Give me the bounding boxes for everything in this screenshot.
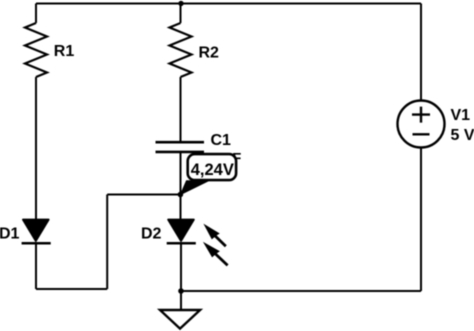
wire R2 top lead: [180, 4, 182, 24]
svg-text:4,24V: 4,24V: [191, 161, 234, 179]
svg-text:D1: D1: [0, 225, 20, 242]
svg-text:R1: R1: [54, 43, 75, 60]
node junction C1/D2: [178, 192, 184, 198]
light arrow 1 of photodiode D2: [203, 224, 225, 247]
node top junction at R2: [178, 1, 183, 6]
photodiode D2: [167, 220, 196, 244]
voltage source V1: [398, 101, 445, 148]
wire D2 cathode to ground node: [180, 243, 182, 291]
wire R2 bottom lead to C1: [180, 77, 182, 142]
resistor R1: [25, 23, 47, 77]
wire top rail from R1 to V1: [36, 3, 421, 5]
wire left branch bottom to D1: [36, 288, 107, 290]
diode D1: [22, 220, 51, 244]
svg-text:V1: V1: [451, 107, 471, 124]
wire left branch vertical: [106, 195, 108, 290]
wire R1 top lead: [35, 4, 37, 24]
wire junction to left branch: [107, 194, 180, 196]
wire V1 bottom lead: [420, 148, 422, 292]
ground: [160, 310, 200, 329]
wire V1 top lead: [420, 4, 422, 101]
resistor R2: [170, 23, 192, 77]
wire ground lead: [180, 291, 182, 310]
callout balloon 4,24V pointing at node between C1 and D2: [181, 154, 237, 195]
svg-text:C1: C1: [211, 132, 232, 149]
svg-text:5 V: 5 V: [451, 127, 474, 144]
svg-text:R2: R2: [199, 45, 220, 62]
light arrow 2 of photodiode D2: [203, 242, 228, 266]
svg-text:D2: D2: [141, 226, 162, 243]
wire R1 bottom lead to D1: [35, 77, 37, 220]
capacitor C1: [156, 142, 205, 152]
node ground junction: [178, 288, 184, 294]
wire C1 bottom lead to D2: [180, 152, 182, 220]
wire bottom right rail to V1: [181, 290, 421, 292]
wire D1 bottom lead: [35, 243, 37, 289]
